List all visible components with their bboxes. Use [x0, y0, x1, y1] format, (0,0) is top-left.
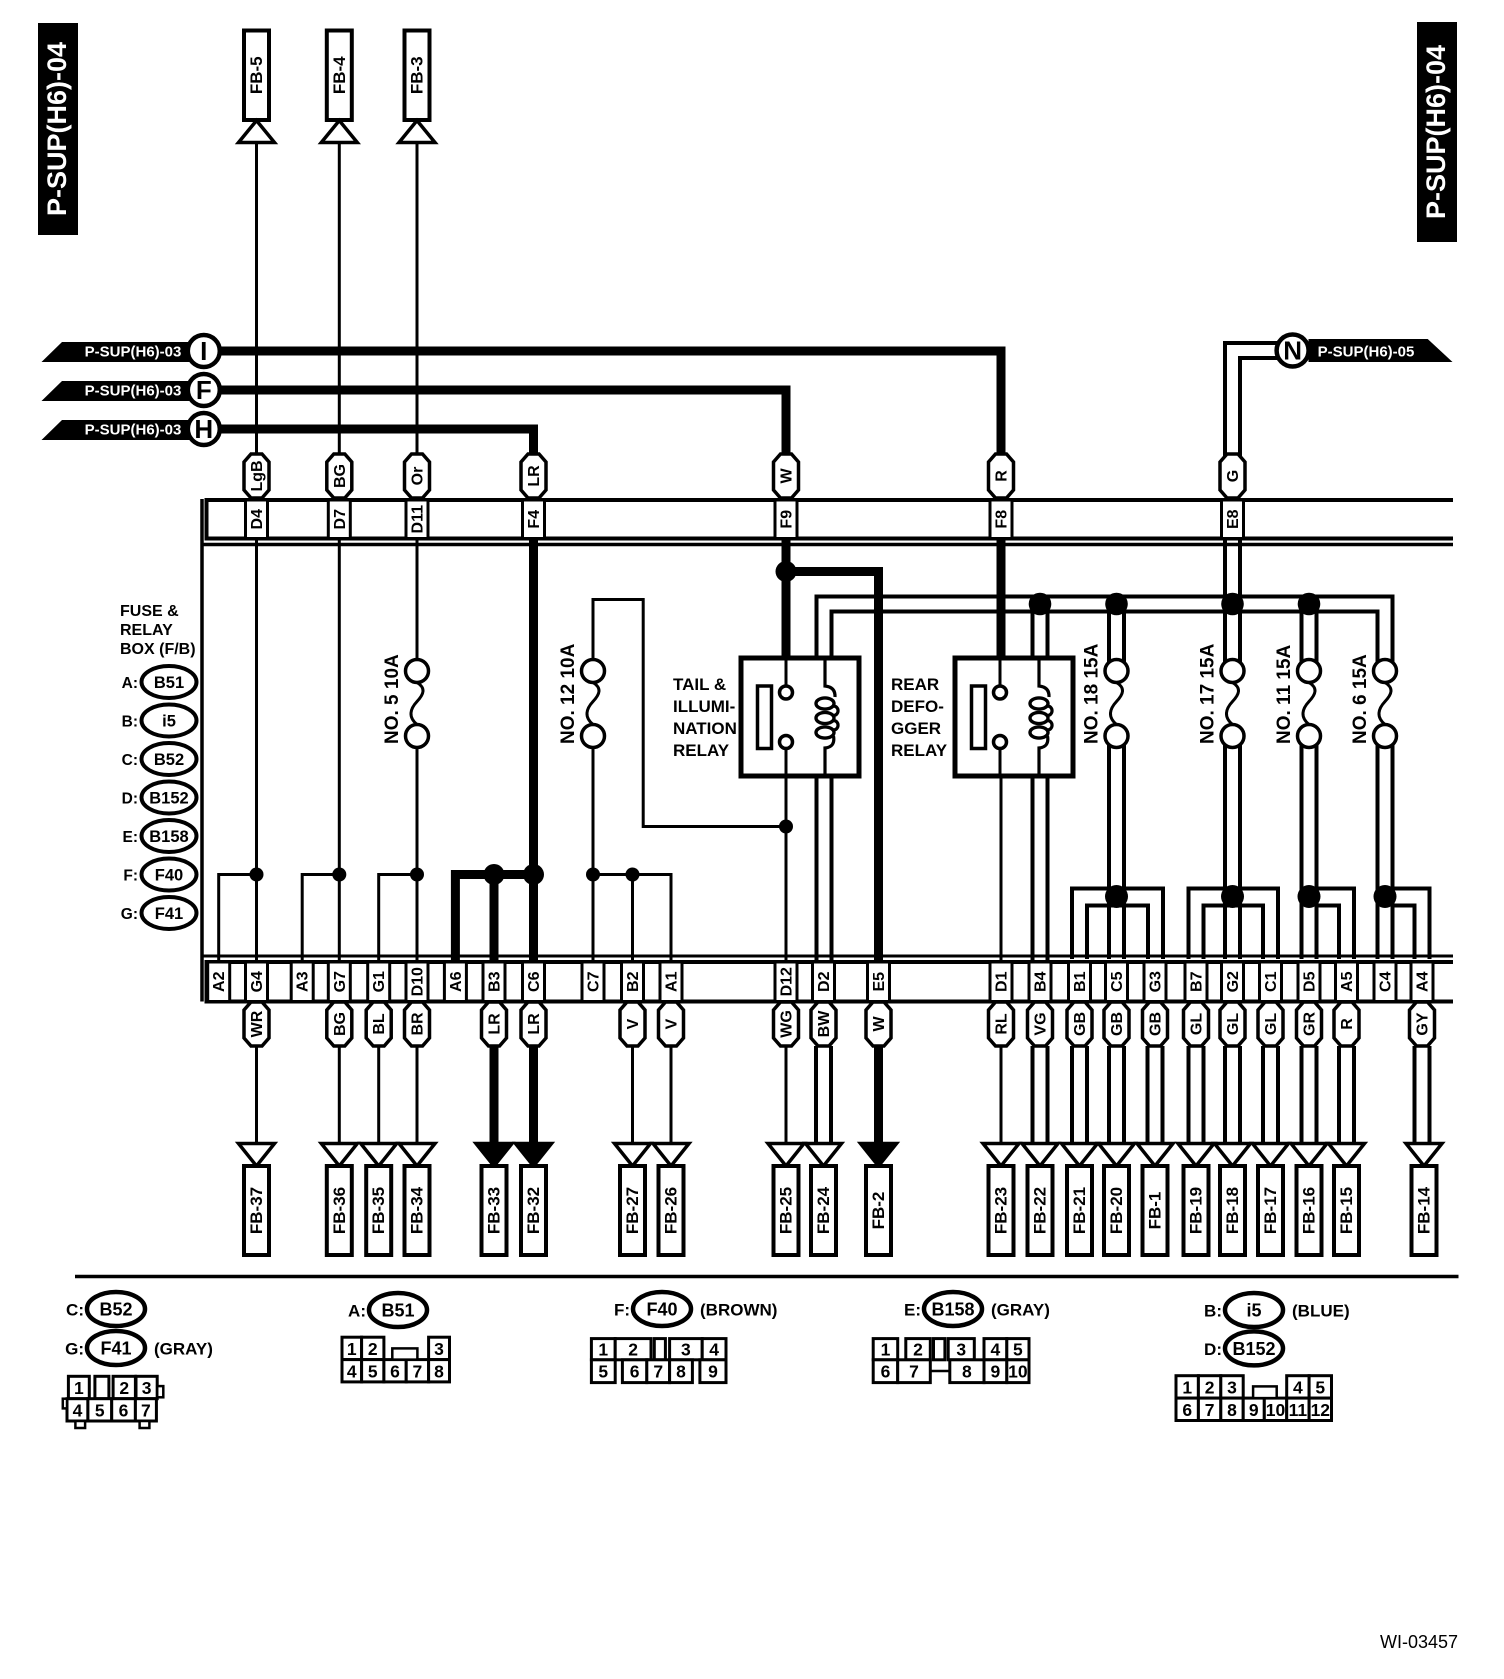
svg-text:FB-25: FB-25: [777, 1187, 796, 1234]
svg-text:F40: F40: [155, 867, 183, 885]
svg-text:D12: D12: [779, 967, 796, 996]
svg-text:1: 1: [598, 1340, 608, 1360]
wire FB-3 to bus: [416, 143, 419, 459]
wire color label WR at x=256.5: [244, 1002, 269, 1046]
wire color label V at x=632.5: [620, 1002, 645, 1046]
connector legend G: F41 (GRAY): [65, 1331, 213, 1365]
svg-text:FB-5: FB-5: [247, 56, 266, 94]
svg-text:4: 4: [991, 1340, 1001, 1360]
wire (outlined) bracket B7-C1: [1189, 889, 1279, 960]
svg-text:D:: D:: [122, 791, 138, 808]
wire (thick) F to F9: [219, 390, 786, 460]
svg-text:G:: G:: [121, 906, 138, 923]
wire color label Or: [405, 454, 430, 498]
svg-text:10: 10: [1008, 1362, 1028, 1382]
svg-text:TAIL &: TAIL &: [673, 675, 726, 694]
off-page reference P-SUP(H6)-03 (F): [42, 374, 220, 406]
relay: REAR DEFOGGER RELAY: [891, 658, 1073, 776]
svg-text:P-SUP(H6)-03: P-SUP(H6)-03: [85, 383, 182, 400]
svg-text:C1: C1: [1263, 971, 1280, 992]
wire branch to A3: [302, 875, 339, 962]
svg-text:3: 3: [1227, 1377, 1237, 1397]
svg-text:I: I: [200, 336, 207, 366]
connector FB-36: [321, 1144, 357, 1256]
svg-text:P-SUP(H6)-05: P-SUP(H6)-05: [1318, 344, 1415, 361]
fuse NO. 11 15A: [1274, 644, 1321, 747]
svg-text:H: H: [194, 414, 213, 444]
svg-text:5: 5: [598, 1362, 608, 1382]
svg-text:6: 6: [630, 1362, 640, 1382]
pin C6: [523, 962, 545, 1002]
connector FB-18: [1215, 1144, 1251, 1256]
svg-text:C:: C:: [66, 1301, 84, 1320]
wire (outlined) E8 to NO.17 fuse: [1223, 539, 1227, 662]
svg-text:B1: B1: [1072, 971, 1089, 992]
wire rear relay contact to D1: [1000, 776, 1003, 961]
wire GB drop: [1107, 1046, 1111, 1144]
fuse NO. 17 15A: [1198, 643, 1245, 747]
svg-text:(GRAY): (GRAY): [991, 1301, 1050, 1320]
svg-text:B4: B4: [1033, 971, 1050, 992]
relay: TAIL & ILLUMINATION RELAY: [673, 658, 859, 776]
wire (outlined) bracket D5-A5: [1302, 889, 1355, 960]
svg-text:B158: B158: [931, 1300, 974, 1320]
svg-text:B52: B52: [154, 751, 184, 769]
junction dot rail/rear coil: [1029, 593, 1052, 616]
connector FB-16: [1291, 1144, 1327, 1256]
pin A1: [660, 962, 682, 1002]
wire GB drop: [1070, 1046, 1074, 1144]
connector FB-21: [1062, 1144, 1098, 1256]
off-page reference P-SUP(H6)-05 (N): [1277, 335, 1453, 367]
wire (thick) branch to B3: [490, 875, 499, 962]
svg-text:LR: LR: [526, 1013, 543, 1035]
wire color label LgB: [244, 454, 269, 498]
pin F9: [775, 500, 797, 539]
svg-text:D10: D10: [410, 967, 427, 996]
pin B7: [1185, 962, 1207, 1002]
svg-text:5: 5: [95, 1400, 105, 1420]
connector FB-33: [476, 1144, 512, 1256]
svg-text:6: 6: [390, 1361, 400, 1381]
svg-text:F8: F8: [994, 510, 1011, 529]
svg-text:RELAY: RELAY: [891, 741, 948, 760]
svg-text:GGER: GGER: [891, 719, 941, 738]
junction dot C6: [523, 864, 544, 885]
pin C5: [1106, 962, 1128, 1002]
svg-text:B:: B:: [122, 714, 138, 731]
svg-text:1: 1: [881, 1340, 891, 1360]
svg-text:8: 8: [962, 1362, 972, 1382]
pin A6: [444, 962, 466, 1002]
pin A4: [1411, 962, 1433, 1002]
svg-text:B2: B2: [625, 971, 642, 992]
svg-text:FB-37: FB-37: [247, 1187, 266, 1234]
connector FB-20: [1099, 1144, 1135, 1256]
svg-text:A4: A4: [1415, 971, 1432, 992]
svg-text:2: 2: [368, 1339, 378, 1359]
pin D7: [328, 500, 350, 539]
svg-text:1: 1: [347, 1339, 357, 1359]
svg-text:i5: i5: [162, 713, 176, 731]
wire BG drop: [338, 1046, 341, 1144]
connector legend D: B152: [1204, 1331, 1283, 1365]
svg-text:7: 7: [413, 1361, 423, 1381]
svg-text:ILLUMI-: ILLUMI-: [673, 697, 735, 716]
svg-text:RL: RL: [994, 1013, 1011, 1035]
svg-text:3: 3: [142, 1378, 152, 1398]
svg-text:P-SUP(H6)-03: P-SUP(H6)-03: [85, 422, 182, 439]
wire LR drop: [529, 1046, 538, 1150]
connector FB-26: [653, 1144, 689, 1256]
junction dot C7: [586, 868, 600, 882]
svg-text:FB-16: FB-16: [1300, 1187, 1319, 1234]
svg-text:NO. 11 15A: NO. 11 15A: [1274, 644, 1295, 744]
wire BL drop: [377, 1046, 380, 1144]
connector FB-1: [1137, 1144, 1173, 1256]
svg-text:B152: B152: [149, 790, 188, 808]
wire V drop: [631, 1046, 634, 1144]
svg-text:GL: GL: [1263, 1013, 1280, 1035]
svg-text:NO. 17 15A: NO. 17 15A: [1198, 643, 1219, 744]
svg-text:LR: LR: [526, 465, 543, 487]
svg-text:A:: A:: [348, 1302, 366, 1321]
svg-text:G1: G1: [371, 971, 388, 992]
svg-text:P-SUP(H6)-04: P-SUP(H6)-04: [42, 42, 72, 216]
connector pinout B158: [873, 1339, 1029, 1383]
svg-text:BL: BL: [371, 1013, 388, 1035]
svg-text:4: 4: [709, 1340, 719, 1360]
fuse & relay box: top connector strip: [207, 500, 1454, 541]
svg-text:F:: F:: [614, 1301, 630, 1320]
connector legend A: B51: [122, 666, 197, 698]
svg-text:BG: BG: [332, 464, 349, 488]
connector FB-35: [361, 1144, 397, 1256]
connector FB-3: [399, 31, 435, 143]
svg-text:W: W: [779, 468, 796, 484]
connector FB-34: [399, 1144, 435, 1256]
connector FB-2: [861, 1144, 897, 1256]
svg-text:B52: B52: [99, 1300, 132, 1320]
svg-text:FB-21: FB-21: [1070, 1187, 1089, 1234]
svg-text:N: N: [1283, 336, 1302, 366]
svg-text:BW: BW: [816, 1010, 833, 1038]
svg-text:F41: F41: [155, 905, 183, 923]
pin D2: [813, 962, 835, 1002]
wire branch to A2: [219, 875, 257, 962]
svg-text:2: 2: [119, 1378, 129, 1398]
pin D11: [406, 500, 428, 539]
svg-text:GB: GB: [1109, 1012, 1126, 1036]
svg-text:C7: C7: [586, 971, 603, 992]
svg-text:FB-4: FB-4: [330, 56, 349, 94]
wire VG drop: [1031, 1046, 1035, 1144]
page label P-SUP(H6)-04 right: [1417, 22, 1457, 242]
connector FB-14: [1406, 1144, 1442, 1256]
junction dot D10: [410, 868, 424, 882]
svg-text:9: 9: [1249, 1400, 1259, 1420]
wire (thick) F9 to tail relay: [782, 540, 791, 660]
svg-text:G7: G7: [332, 971, 349, 992]
svg-text:12: 12: [1311, 1400, 1331, 1420]
svg-text:F:: F:: [123, 868, 138, 885]
pin B2: [622, 962, 644, 1002]
wire (outlined) rear relay coil feed: [1031, 604, 1035, 658]
wire color label BW at x=823.5: [811, 1002, 836, 1046]
svg-text:FB-3: FB-3: [408, 56, 427, 94]
connector legend E: B158 (GRAY): [904, 1292, 1050, 1326]
svg-text:F4: F4: [526, 510, 543, 529]
svg-text:BOX (F/B): BOX (F/B): [120, 641, 196, 658]
svg-text:GL: GL: [1225, 1013, 1242, 1035]
wire color label GL at x=1270.5: [1258, 1002, 1283, 1046]
pin D4: [246, 500, 268, 539]
svg-text:FB-26: FB-26: [662, 1187, 681, 1234]
svg-text:P-SUP(H6)-04: P-SUP(H6)-04: [1421, 45, 1451, 219]
wire GB drop: [1146, 1046, 1150, 1144]
pin C7: [582, 962, 604, 1002]
junction dot C5: [1105, 885, 1128, 908]
fuse box inner bottom line: [202, 955, 1453, 958]
connector FB-15: [1329, 1144, 1365, 1256]
connector FB-32: [516, 1144, 552, 1256]
connector legend B: i5 (BLUE): [1204, 1293, 1350, 1327]
wire BW drop: [814, 1046, 818, 1144]
wire D7 to G7: [338, 540, 341, 961]
label FUSE & RELAY BOX (F/B): [120, 603, 196, 658]
svg-text:i5: i5: [1246, 1301, 1261, 1321]
wire GL drop: [1187, 1046, 1191, 1144]
svg-text:8: 8: [434, 1361, 444, 1381]
wire WR drop: [255, 1046, 258, 1144]
pin D1: [990, 962, 1012, 1002]
junction dot B2: [626, 868, 640, 882]
connector pinout F40: [591, 1339, 726, 1383]
connector legend F: F40 (BROWN): [614, 1292, 777, 1326]
wire (thick) H to F4: [219, 429, 534, 460]
svg-text:FB-23: FB-23: [992, 1187, 1011, 1234]
svg-text:2: 2: [628, 1340, 638, 1360]
svg-text:F9: F9: [779, 510, 796, 529]
svg-text:FUSE &: FUSE &: [120, 603, 179, 620]
junction dot C4: [1374, 885, 1397, 908]
svg-text:V: V: [664, 1018, 681, 1029]
wire W drop: [874, 1046, 883, 1150]
svg-text:(BROWN): (BROWN): [700, 1301, 777, 1320]
svg-text:B152: B152: [1232, 1339, 1275, 1359]
svg-text:D11: D11: [410, 505, 427, 534]
wire D4 to G4: [255, 540, 258, 961]
svg-text:3: 3: [956, 1340, 966, 1360]
wire B2 drop: [631, 875, 634, 962]
svg-text:D1: D1: [994, 971, 1011, 992]
connector FB-22: [1022, 1144, 1058, 1256]
svg-text:FB-17: FB-17: [1261, 1187, 1280, 1234]
wire junction row C7-B2-A1: [593, 875, 671, 962]
wire color label RL at x=1001: [989, 1002, 1014, 1046]
fuse NO. 6 15A: [1350, 654, 1397, 748]
svg-text:E:: E:: [123, 829, 139, 846]
wire (thick) branch to A6: [455, 875, 533, 962]
wire color label GL at x=1232.5: [1220, 1002, 1245, 1046]
svg-text:WG: WG: [779, 1010, 796, 1038]
wire WG drop: [785, 1046, 788, 1144]
svg-text:F: F: [196, 375, 212, 405]
svg-text:FB-2: FB-2: [869, 1192, 888, 1230]
svg-text:LgB: LgB: [249, 460, 266, 491]
pin G7: [328, 962, 350, 1002]
wire fuse NO.5 to D10: [416, 746, 419, 961]
wire LR drop: [490, 1046, 499, 1150]
wire (outlined) NO.11 to D5: [1300, 745, 1304, 959]
wire (outlined) bracket C4-A4: [1378, 889, 1430, 960]
wire (thick) F8 to rear relay: [997, 540, 1006, 660]
wire V drop: [670, 1046, 673, 1144]
wire (outlined) bracket B1-G3: [1072, 889, 1163, 960]
pin F8: [990, 500, 1012, 539]
junction dot F9: [776, 561, 797, 582]
wire color label BR at x=417: [405, 1002, 430, 1046]
svg-text:FB-36: FB-36: [330, 1187, 349, 1234]
svg-text:B7: B7: [1189, 971, 1206, 992]
junction dot D7/G7: [332, 868, 346, 882]
svg-text:GR: GR: [1302, 1012, 1319, 1036]
svg-text:A:: A:: [122, 675, 138, 692]
svg-text:FB-33: FB-33: [485, 1187, 504, 1234]
svg-text:R: R: [994, 470, 1011, 482]
wire fuse NO.12 to C7: [592, 746, 595, 961]
wire color label LR: [521, 454, 546, 498]
svg-text:(GRAY): (GRAY): [154, 1340, 213, 1359]
connector FB-27: [615, 1144, 651, 1256]
svg-text:Or: Or: [410, 467, 427, 486]
wire GR drop: [1300, 1046, 1304, 1144]
wire tail relay contact to D12: [785, 776, 788, 961]
page label P-SUP(H6)-04 left: [38, 23, 78, 235]
junction dot rail/NO.11: [1298, 593, 1321, 616]
pin C1: [1260, 962, 1282, 1002]
svg-text:F40: F40: [646, 1300, 677, 1320]
separator line: [75, 1275, 1459, 1279]
wire (outlined) NO.18 fuse feed: [1107, 604, 1111, 662]
wire (thick) branch to E5: [786, 572, 879, 962]
svg-text:5: 5: [1315, 1377, 1325, 1397]
connector legend D: B152: [122, 782, 197, 814]
svg-text:W: W: [871, 1016, 888, 1032]
svg-text:FB-14: FB-14: [1415, 1186, 1434, 1234]
pin G2: [1222, 962, 1244, 1002]
wire color label BG at x=339.3: [327, 1002, 352, 1046]
svg-text:D4: D4: [249, 509, 266, 530]
wire color label R at x=1346.5: [1334, 1002, 1359, 1046]
pin G1: [368, 962, 390, 1002]
svg-text:RELAY: RELAY: [120, 622, 173, 639]
junction dot G2: [1221, 885, 1244, 908]
svg-text:8: 8: [676, 1362, 686, 1382]
svg-text:FB-15: FB-15: [1337, 1187, 1356, 1234]
svg-text:C4: C4: [1378, 971, 1395, 992]
svg-text:NATION: NATION: [673, 719, 737, 738]
svg-text:FB-35: FB-35: [369, 1187, 388, 1234]
fuse & relay box: bottom connector strip: [207, 962, 1454, 1002]
svg-text:WR: WR: [249, 1010, 266, 1037]
svg-text:2: 2: [1205, 1377, 1215, 1397]
svg-text:FB-22: FB-22: [1031, 1187, 1050, 1234]
wire color label GB at x=1079.5: [1067, 1002, 1092, 1046]
wire color label GL at x=1196: [1184, 1002, 1209, 1046]
wire (outlined) coil supply rail: [817, 597, 1393, 663]
svg-text:E:: E:: [904, 1301, 921, 1320]
svg-text:11: 11: [1289, 1400, 1308, 1420]
pin G3: [1144, 962, 1166, 1002]
svg-text:9: 9: [708, 1362, 718, 1382]
wire NO.12 branch node: [779, 820, 793, 834]
wire GL drop: [1223, 1046, 1227, 1144]
svg-text:FB-19: FB-19: [1187, 1187, 1206, 1234]
svg-text:FB-18: FB-18: [1223, 1187, 1242, 1234]
wire color label GB at x=1116.5: [1104, 1002, 1129, 1046]
wire (outlined) NO.17 to G2: [1223, 745, 1227, 959]
svg-text:6: 6: [119, 1400, 129, 1420]
pin D10: [406, 962, 428, 1002]
svg-text:GB: GB: [1072, 1012, 1089, 1036]
pin A3: [291, 962, 313, 1002]
svg-text:R: R: [1339, 1018, 1356, 1030]
junction dot rail/E8: [1221, 593, 1244, 616]
wire GL drop: [1261, 1046, 1265, 1144]
wire R drop: [1337, 1046, 1341, 1144]
connector pinout B152: [1176, 1376, 1332, 1421]
svg-text:G2: G2: [1225, 971, 1242, 992]
connector legend C: B52: [122, 743, 197, 775]
svg-text:FB-34: FB-34: [408, 1186, 427, 1234]
pin E5: [868, 962, 890, 1002]
svg-text:A2: A2: [211, 971, 228, 992]
svg-text:B158: B158: [149, 828, 188, 846]
wire color label GY at x=1422: [1410, 1002, 1435, 1046]
junction dot D4/G4: [250, 868, 264, 882]
svg-text:4: 4: [1293, 1377, 1303, 1397]
pin B3: [483, 962, 505, 1002]
svg-text:FB-32: FB-32: [524, 1187, 543, 1234]
connector FB-37: [239, 1144, 275, 1256]
svg-text:G: G: [1225, 470, 1242, 482]
junction dot B3: [484, 864, 505, 885]
fuse NO. 12 10A: [558, 643, 605, 747]
pin E8: [1222, 500, 1244, 539]
svg-text:A1: A1: [664, 971, 681, 992]
connector pinout F41: [63, 1376, 164, 1428]
svg-text:D5: D5: [1302, 971, 1319, 992]
connector FB-5: [239, 31, 275, 143]
svg-text:G:: G:: [65, 1340, 84, 1359]
wire color label W: [774, 454, 799, 498]
fuse box left edge: [200, 499, 204, 1002]
wire (outlined) rear coil to B4: [1031, 776, 1035, 961]
svg-text:2: 2: [913, 1340, 923, 1360]
svg-text:6: 6: [881, 1362, 891, 1382]
svg-text:C6: C6: [526, 971, 543, 992]
svg-text:C5: C5: [1109, 971, 1126, 992]
svg-text:DEFO-: DEFO-: [891, 697, 944, 716]
svg-text:BR: BR: [410, 1012, 427, 1036]
off-page reference P-SUP(H6)-03 (H): [42, 413, 220, 445]
svg-text:A3: A3: [295, 971, 312, 992]
svg-text:NO. 6 15A: NO. 6 15A: [1350, 654, 1371, 744]
pin A5: [1336, 962, 1358, 1002]
wire color label LR at x=533.5: [521, 1002, 546, 1046]
svg-text:E8: E8: [1225, 509, 1242, 529]
